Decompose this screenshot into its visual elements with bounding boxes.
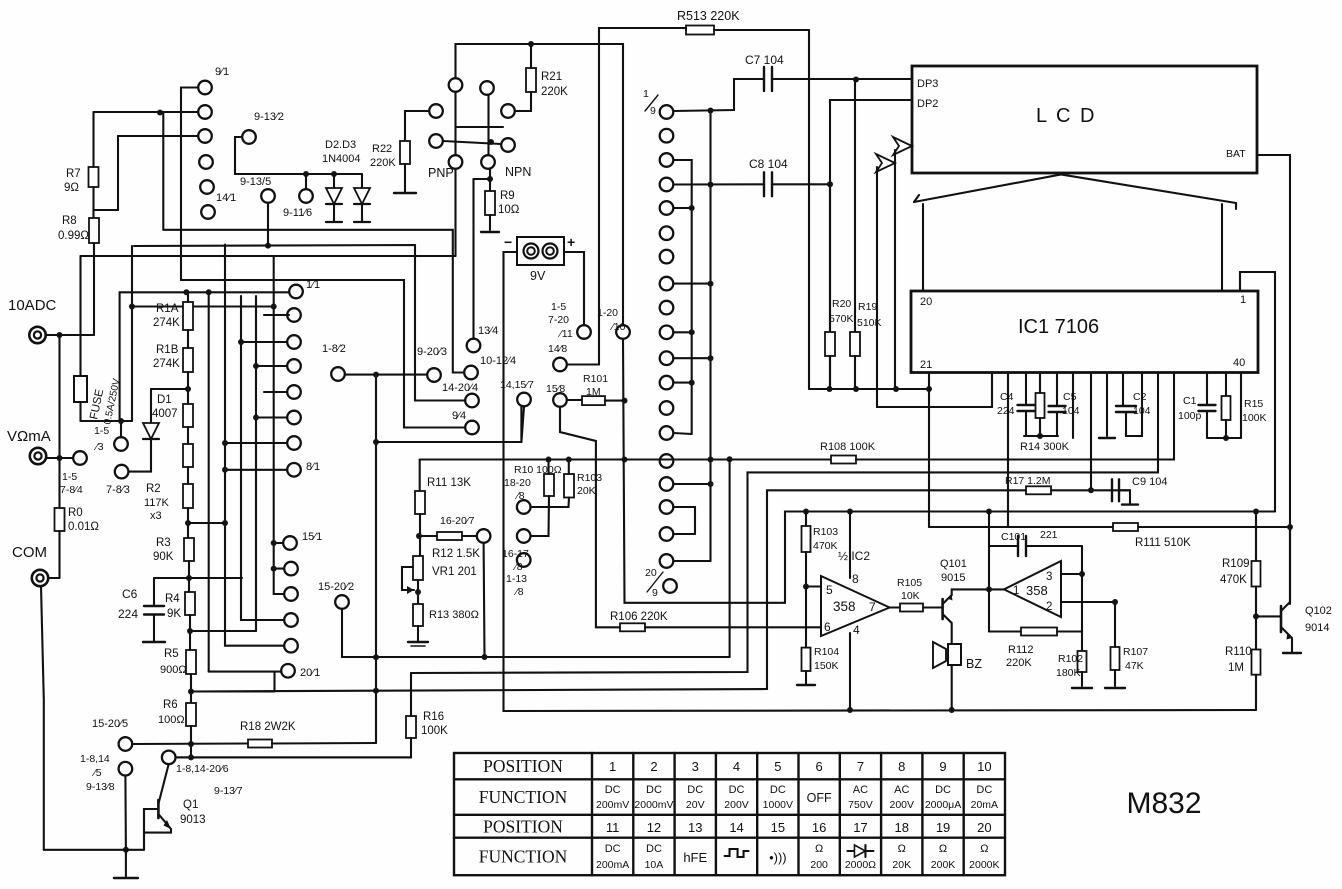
svg-text:3: 3 [692,759,699,774]
resistor R109 470K [1255,512,1257,562]
stub col3 417 [256,416,287,418]
svg-text:C101: C101 [1001,531,1026,543]
contact col3 y342 [287,335,301,349]
svg-text:IC1 7106: IC1 7106 [1018,316,1099,338]
svg-text:104: 104 [1062,405,1080,417]
contact 15-20/2 [335,595,349,609]
svg-text:4007: 4007 [152,408,178,420]
svg-text:9013: 9013 [180,814,206,826]
svg-text:18: 18 [895,820,909,835]
svg-text:100K: 100K [1242,412,1267,424]
contact col3 y594 [284,587,298,601]
resistor R108 100K [831,456,856,464]
bus y229 to 10-12/4 [163,230,464,373]
svg-text:100K: 100K [421,725,448,737]
contact 15/8 [553,393,567,407]
svg-text:10ADC: 10ADC [8,297,57,314]
svg-text:570K: 570K [829,313,854,325]
svg-text:D2.D3: D2.D3 [325,139,356,151]
svg-text:8: 8 [852,572,859,586]
svg-text:18-20: 18-20 [504,477,531,489]
contact col3 y620 [284,613,298,627]
svg-text:16: 16 [812,820,826,835]
wire 1/1 net [119,292,121,421]
svg-text:20mA: 20mA [971,799,998,811]
long wire y442 [376,407,521,442]
resistor 16-20/7 horizontal [419,535,437,537]
svg-text:R8: R8 [62,215,77,227]
transistor Q101 9015 [941,599,944,619]
socket NPN bottom [481,155,495,169]
wire R4 bottom junction [189,615,191,650]
wire 15/8 down chain to pin6 [560,407,620,627]
contact col2 #12 [660,376,674,390]
pot bracket VR1 [402,567,414,590]
svg-text:1-13: 1-13 [506,573,527,585]
opamp IC2a triangle [821,576,890,636]
stub 8/1 [225,469,287,471]
svg-text:2000μA: 2000μA [925,799,961,811]
stub contact3 x691 [674,160,692,434]
resistor R20 570K [829,184,831,332]
resistor R14 300K [1039,373,1041,394]
svg-text:200mA: 200mA [596,859,629,871]
svg-text:R110: R110 [1225,646,1252,658]
svg-text:13⁄4: 13⁄4 [478,325,498,337]
contact 14/8 [553,358,567,372]
svg-text:hFE: hFE [683,850,707,865]
block LCD [912,66,1257,173]
terminal COM [32,570,48,586]
pin line x1073 [1072,373,1074,439]
contact 7-8/3 [115,465,129,479]
svg-text:15⁄8: 15⁄8 [546,383,565,395]
contact col2 #7 [660,250,674,264]
wire box top junction [986,509,992,515]
svg-text:C7 104: C7 104 [745,53,784,67]
diode D3 1N4004 [361,174,363,188]
wire pin7 to R105 [890,606,900,608]
contact 16-20/7 [477,529,491,543]
wire R6 bottom [190,726,192,757]
contact 20/1 [281,664,295,678]
svg-text:40: 40 [1233,357,1245,369]
resistor R513 220K [686,26,714,35]
resistor R15 100K [1225,373,1227,397]
rail under C4 R14 C5 [1024,435,1058,437]
contact 1-8/2 [331,367,345,381]
resistor R110 1M [1252,650,1261,675]
svg-text:9014: 9014 [1305,622,1329,634]
svg-text:OFF: OFF [807,791,832,805]
svg-text:Ω: Ω [980,843,988,855]
contact col3 y366 [287,359,301,373]
svg-text:10: 10 [977,759,991,774]
contact 9-20/3 [427,368,441,382]
wire PNP left to R22 [405,111,429,141]
wire R11 top from y459 line [419,460,421,492]
svg-text:1000V: 1000V [763,799,793,811]
svg-text:VΩmA: VΩmA [7,428,51,445]
svg-text:1-5: 1-5 [551,301,566,313]
wire 1-20/10 down to opamp rail [623,339,1275,603]
wire to 20/1 [273,672,275,692]
svg-text:DP2: DP2 [917,98,938,110]
svg-text:L C D: L C D [1036,105,1096,127]
svg-text:1-20: 1-20 [597,307,618,319]
contact col3 y443 [287,436,301,450]
svg-text:C2: C2 [1133,391,1147,403]
resistor R17 1.2M on y490 wire [1026,486,1051,494]
svg-text:•))): •))) [769,850,787,865]
svg-text:358: 358 [833,599,856,614]
svg-text:Ω: Ω [815,843,823,855]
stub contact19 y561 [674,560,711,562]
contact col3 y568 [284,562,298,576]
arrow line x895 [894,150,896,389]
svg-text:R106 220K: R106 220K [610,611,668,623]
long wire y690 R5 to x767 [191,490,1130,691]
svg-text:10Ω: 10Ω [498,204,520,216]
svg-text:R4: R4 [165,593,180,605]
wire R2 bottom junction [187,508,189,538]
capacitor C4 224 [1025,373,1027,406]
feedback box left [988,546,990,632]
svg-text:15⁄1: 15⁄1 [302,531,322,543]
wire contact6 row to R16 [176,756,411,758]
contact 1/1 [289,285,303,299]
wire PNP bottom drop to fuse line [454,169,456,256]
svg-text:9-13/5: 9-13/5 [240,176,271,188]
svg-text:274K: 274K [153,358,180,370]
svg-text:POSITION: POSITION [483,816,563,836]
svg-text:1: 1 [1013,585,1019,597]
svg-text:R20: R20 [832,298,851,310]
wire 15/8 to R101 [567,399,582,401]
contact col2 #15 [660,454,674,468]
wire 15-20/2 drop [342,609,730,657]
capacitor C8 104 [763,172,765,196]
svg-text:200V: 200V [724,799,749,811]
svg-text:Q1: Q1 [183,799,198,811]
resistor R103 20K [564,474,574,498]
fuse FUSE 0.5A/250V [79,256,81,376]
resistor R104 150K [802,648,811,671]
svg-text:20: 20 [645,567,657,579]
capacitor C1 100p [1206,373,1208,406]
contact col2 #13 [660,401,674,415]
svg-text:DC: DC [605,843,621,855]
stub contact14 y433 [674,433,692,434]
svg-text:9-13⁄8: 9-13⁄8 [86,781,115,793]
resistor R1A 274K [183,302,193,330]
svg-text:R13 380Ω: R13 380Ω [429,609,479,621]
contact 14/1 [201,205,215,219]
svg-text:R109: R109 [1222,558,1250,570]
transistor Q1 9013 [157,800,160,818]
svg-text:0.01Ω: 0.01Ω [68,521,99,533]
resistor R0 0.01Ω [58,458,60,508]
svg-text:14: 14 [729,820,743,835]
wire pin21 down [928,373,930,528]
svg-text:POSITION: POSITION [483,756,563,776]
contact 20/9 [663,579,677,593]
bus vertical x256 [255,296,257,631]
svg-text:⁄10: ⁄10 [609,321,626,333]
svg-text:6: 6 [816,759,823,774]
wire C7 to 1/9 [674,79,765,111]
contact 15-20/5 [119,737,133,751]
feedback box bottom / R112 220K [989,630,1021,632]
svg-text:0.99Ω: 0.99Ω [58,230,89,242]
wire x729 riser [729,459,731,657]
svg-text:BAT: BAT [1226,148,1246,160]
svg-text:⁄11: ⁄11 [557,328,573,340]
svg-text:R19: R19 [858,301,877,313]
svg-text:4: 4 [733,759,740,774]
contact col3 y645 [284,639,298,653]
svg-text:9⁄1: 9⁄1 [215,66,229,78]
svg-text:R17 1.2M: R17 1.2M [1005,475,1051,487]
svg-text:R107: R107 [1123,646,1148,658]
resistor R19 510K [854,80,856,333]
stub col3 443 [225,442,287,444]
svg-text:R111 510K: R111 510K [1135,537,1191,549]
contact col2 #10 [660,326,674,340]
svg-text:DC: DC [646,784,662,796]
stub contact12 [674,382,692,384]
svg-text:+: + [567,234,575,250]
svg-text:DC: DC [976,784,992,796]
vertical x711 [709,111,711,562]
svg-text:DC: DC [770,784,786,796]
svg-text:1⁄1: 1⁄1 [306,279,320,291]
contact col2 #6 [660,226,674,240]
contact 1-8,14/5 [119,762,133,776]
svg-text:1-8,14: 1-8,14 [80,753,110,765]
pin tick x1107 [1106,373,1108,437]
svg-text:220K: 220K [1006,657,1032,669]
socket NPN top [480,81,494,95]
svg-text:21: 21 [920,359,932,371]
resistor R21 220K [530,44,532,68]
stub col3 315 [264,314,289,316]
bus vertical x208 [208,292,210,671]
svg-text:7-20: 7-20 [548,314,569,326]
svg-text:C1: C1 [1183,395,1197,407]
wire NPN emitter junction [487,176,493,182]
resistor R13 380Ω [413,604,423,626]
svg-text:R513 220K: R513 220K [677,9,740,23]
table symbol diode pos17 [847,850,873,852]
svg-text:R5: R5 [164,648,179,660]
svg-text:4: 4 [853,623,860,637]
contact col2 #18 [660,527,674,541]
wire y389 under IC [809,388,929,390]
resistor R1B 274K [183,348,193,372]
contact 9-11/6 [299,189,313,203]
svg-text:C5: C5 [1063,391,1077,403]
svg-text:9015: 9015 [941,572,965,584]
wire D1 to 7-8/3 [129,439,151,472]
contact 9-13/2 [242,130,256,144]
resistor R101 1M [582,396,605,405]
svg-text:9-13⁄2: 9-13⁄2 [254,111,284,123]
resistor R5 900Ω [186,650,196,674]
contact 1-5/3 [120,421,122,437]
svg-text:14⁄1: 14⁄1 [216,192,236,204]
svg-text:1-5: 1-5 [94,425,109,437]
svg-text:9⁄4: 9⁄4 [452,410,466,422]
long wire y671 to x747 [411,373,1158,674]
terminal 10ADC [29,327,45,343]
svg-text:AC: AC [853,784,868,796]
svg-text:17: 17 [853,820,867,835]
wire VΩmA vertical [58,335,60,458]
svg-text:1M: 1M [586,386,601,398]
resistor R7 9Ω [89,167,99,187]
contact col1-4 [199,155,213,169]
resistor R8 0.99Ω [89,218,99,243]
resistor R102 180K [1081,632,1083,652]
ground bottom left [125,850,127,877]
wire pin4 down [849,633,851,710]
svg-text:117K: 117K [144,497,170,509]
svg-text:20K: 20K [892,859,911,871]
wire DP2 [830,100,912,389]
pin line to com rail x1008 [1007,373,1009,528]
resistor R18 2W2K [248,740,272,748]
svg-text:510K: 510K [857,317,882,329]
svg-text:2000Ω: 2000Ω [845,859,876,871]
wire 16-20/7 drop [483,543,486,657]
contact 14-20/4 [465,394,479,408]
svg-text:9Ω: 9Ω [64,182,79,194]
svg-text:R101: R101 [583,373,608,385]
svg-text:150K: 150K [814,660,839,672]
stub contact10 [674,331,692,333]
contact col2 #16 [660,477,674,491]
contact 1-13/8 [517,553,531,567]
wire to contact 9/1 column [94,111,161,113]
junction x1091 [1088,487,1094,493]
contact col3 y392 [287,385,301,399]
svg-text:PNP: PNP [428,166,454,180]
resistor R11 13K [415,491,425,514]
svg-text:8⁄1: 8⁄1 [306,461,320,473]
contact col1-3 [198,129,212,143]
svg-text:R16: R16 [423,711,444,723]
svg-text:R1A: R1A [156,303,179,315]
svg-text:2: 2 [650,759,657,774]
arrow line x877 [877,167,992,407]
svg-text:2000mV: 2000mV [634,799,673,811]
wire R10 bottom to 16-17/8 [531,496,549,536]
contact col2 #2 [660,129,674,143]
terminal VΩmA [30,448,46,464]
svg-text:R22: R22 [372,143,392,155]
svg-text:DC: DC [729,784,745,796]
contact 1-8,14-20/6 [162,751,176,765]
wire R103 bottom to 18-20/8 [531,498,569,508]
svg-text:R104: R104 [814,646,839,658]
stub col3 568 [274,568,284,570]
svg-text:C6: C6 [122,587,138,601]
svg-text:9: 9 [939,759,946,774]
bus vertical x225 [225,245,284,646]
svg-text:NPN: NPN [505,165,531,179]
svg-text:7: 7 [857,759,864,774]
svg-text:C9 104: C9 104 [1132,476,1167,488]
svg-text:R2: R2 [146,483,161,495]
wire 1-8,14/5 drop [124,776,127,850]
svg-text:1: 1 [609,759,616,774]
long wire y459 R108 [420,458,831,460]
contact col2 #17 [660,500,674,514]
svg-text:R103: R103 [813,526,838,538]
wire 13/4 riser [472,179,474,339]
svg-text:Ω: Ω [898,843,906,855]
wire R513 right down [808,30,810,389]
resistor R105 10K [900,604,923,612]
wire NPN center vertical [487,95,489,155]
contact col2 #4 [660,178,674,192]
wire y306 bundle feed [132,305,274,307]
wire R18 right to x376 [272,742,376,745]
svg-text:DC: DC [646,843,662,855]
capacitor C6 224 [153,578,155,606]
svg-text:14-20⁄4: 14-20⁄4 [442,382,478,394]
svg-text:1-8,14-20⁄6: 1-8,14-20⁄6 [176,763,229,775]
capacitor C9 104 [1111,479,1113,501]
resistor R9 10Ω [485,191,495,215]
svg-text:C8 104: C8 104 [749,157,788,171]
socket NPN right-upper [501,104,515,118]
wire buzzer down [951,665,953,710]
svg-text:7: 7 [869,600,876,614]
wire R101 right [605,400,625,402]
buzzer BZ [933,642,946,668]
svg-text:47K: 47K [1125,660,1144,672]
svg-text:R0: R0 [68,507,83,519]
svg-text:274K: 274K [153,317,180,329]
svg-text:½ IC2: ½ IC2 [838,549,870,563]
feedback box top / C101 221 [989,545,1018,547]
svg-text:AC: AC [894,784,909,796]
table POSITION/FUNCTION [454,753,1005,875]
wire pin1 hook [1240,272,1275,512]
contact col2 #9 [660,301,674,315]
resistor R2 117K x3 (three bodies) [183,404,193,427]
wire R7 top [92,112,94,167]
contact col2 #19 [660,554,674,568]
svg-text:1: 1 [1240,294,1246,306]
svg-text:−: − [504,234,512,250]
svg-text:16-20⁄7: 16-20⁄7 [440,515,475,527]
socket NPN right-lower [501,138,515,152]
wire NPN to R9 [489,169,491,191]
stub contact16 y484 [674,483,711,485]
feedback box right [1081,546,1083,632]
svg-text:200mV: 200mV [596,799,629,811]
wire PNP center vertical [454,92,456,155]
stub col3 392 [264,391,287,393]
svg-text:10A: 10A [645,859,664,871]
svg-text:200K: 200K [931,859,956,871]
resistor R22 220K [400,141,410,164]
svg-text:R12 1.5K: R12 1.5K [432,548,480,560]
contact col1-2 [198,105,212,119]
